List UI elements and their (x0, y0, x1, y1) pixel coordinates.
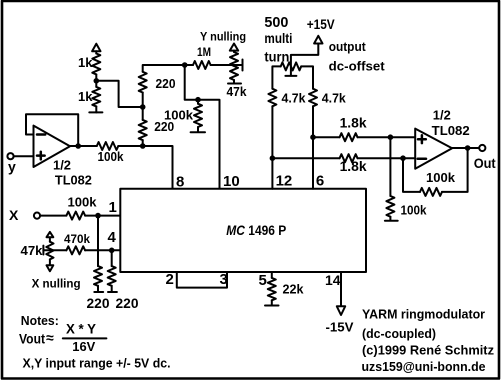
svg-text:1/2: 1/2 (433, 109, 451, 123)
resistor 1k (lower) (78, 87, 100, 107)
node U3 output / feedback (465, 145, 471, 151)
svg-text:100k: 100k (401, 204, 427, 218)
op-amp U3 1/2 TL082 (415, 109, 470, 169)
svg-text:1/2: 1/2 (53, 158, 71, 173)
svg-text:4.7k: 4.7k (322, 91, 347, 106)
svg-text:1k: 1k (78, 89, 93, 104)
label output dc-offset (329, 40, 386, 74)
svg-text:10: 10 (223, 173, 240, 190)
wire pot left to 4.7k (272, 66, 280, 88)
svg-text:2: 2 (166, 271, 174, 288)
credits text (362, 308, 495, 375)
trimmer 47k (X nulling) (46, 232, 53, 271)
ground (below 22k) (265, 300, 279, 305)
resistor 22k (268, 278, 304, 300)
svg-text:uzs159@uni-bonn.de: uzs159@uni-bonn.de (362, 360, 486, 374)
svg-text:1M: 1M (197, 45, 211, 59)
ground (below right 100k) (385, 217, 398, 221)
potentiometer 500 multiturn (281, 62, 302, 70)
wire pot right to 4.7k (301, 66, 313, 88)
label X nulling (32, 279, 81, 291)
op-amp U1 1/2 TL082 (34, 126, 92, 188)
wiper bar (500 pot) (285, 75, 296, 77)
-15V rail arrow (326, 306, 354, 334)
svg-text:470k: 470k (64, 232, 90, 246)
svg-text:100k: 100k (426, 170, 456, 185)
svg-text:47k: 47k (21, 243, 44, 258)
notes text (21, 314, 59, 328)
svg-text:output: output (329, 40, 367, 54)
resistor 1k (upper) (78, 54, 100, 75)
pin 14 label (325, 272, 341, 288)
wire 1.8k bottom to U3 - (358, 157, 416, 159)
wire top net (220 top to Y-nulling) (143, 65, 193, 72)
label X (9, 207, 19, 223)
node pin 12 / 1.8k bottom (270, 155, 276, 161)
svg-text:turn: turn (264, 49, 289, 64)
resistor 4.7k (right) (309, 89, 347, 107)
node pin1/220 (95, 213, 101, 219)
ground (below Y-nulling trimmer) (228, 80, 241, 84)
pin 10 label (223, 173, 240, 190)
node 220 bottom / output net (140, 143, 146, 149)
label 220 (right) (116, 296, 139, 311)
node pin 6 / 1.8k top (310, 134, 316, 140)
+15V rail arrow (pot) (314, 36, 322, 44)
resistor 220 (right, X) (108, 266, 116, 286)
output terminal Out (474, 145, 496, 171)
node 100k top (195, 97, 201, 103)
svg-text:TL082: TL082 (55, 173, 92, 188)
wire 1.8k top to U3 + (358, 136, 416, 138)
svg-text:(c)1999 René Schmitz: (c)1999 René Schmitz (362, 343, 494, 358)
svg-text:-15V: -15V (326, 320, 354, 335)
pin 2 label (166, 271, 174, 288)
label +15V (307, 17, 335, 32)
svg-text:16V: 16V (72, 339, 95, 354)
wire 1k junction to 220 junction (96, 74, 142, 107)
resistor 100k (to ground, middle) (164, 100, 202, 127)
ground (below middle 100k) (191, 127, 205, 132)
pin 12 label (276, 173, 293, 190)
svg-text:100k: 100k (68, 195, 98, 210)
svg-text:y: y (8, 159, 16, 175)
node + input / 100k gnd (388, 134, 394, 140)
wire top net down to pin 10 (185, 65, 220, 189)
wire U1 output (70, 145, 97, 147)
ground (below 1k) (89, 106, 102, 112)
node between 1k resistors (94, 78, 100, 84)
wire output net to pin 8 (118, 146, 172, 189)
wire pin 5 stub (271, 272, 273, 278)
label 500 multi turn (264, 14, 292, 65)
resistor 470k (64, 232, 90, 254)
svg-text:220: 220 (87, 296, 110, 311)
svg-text:MC 1496 P: MC 1496 P (226, 223, 286, 238)
resistor 100k (to ground, right) (386, 137, 426, 217)
svg-text:X * Y: X * Y (66, 321, 97, 337)
resistor 1.8k (top) (340, 116, 367, 142)
svg-text:100k: 100k (98, 150, 124, 164)
svg-text:22k: 22k (283, 283, 304, 297)
label 220 (left) (87, 296, 110, 311)
resistor 220 (lower) (139, 119, 175, 140)
svg-text:X nulling: X nulling (32, 279, 81, 291)
pin 4 label (108, 229, 117, 246)
ground (below left 220) (94, 286, 103, 292)
pin 8 label (176, 174, 184, 191)
svg-text:1k: 1k (78, 55, 93, 70)
input terminal Y (7, 153, 16, 174)
node - input / feedback (400, 155, 406, 161)
wire 1M to trimmer wiper (211, 60, 243, 71)
formula Vout (19, 321, 106, 354)
resistor 4.7k (left) (268, 89, 306, 107)
wire node to left 220 (97, 216, 99, 267)
svg-text:4.7k: 4.7k (282, 91, 307, 106)
resistor 100k (X input) (66, 195, 97, 220)
svg-text:1: 1 (109, 199, 117, 216)
IC U2 MC 1496 P (120, 189, 366, 272)
label Y nulling (200, 32, 246, 44)
svg-text:500: 500 (264, 14, 288, 31)
wire +15V to pot wiper (291, 44, 318, 75)
resistor 100k (U3 feedback) (420, 170, 456, 196)
svg-text:220: 220 (156, 76, 176, 91)
pin 3 label (220, 271, 228, 288)
node between 220 resistors (140, 93, 146, 120)
svg-text:dc-offset: dc-offset (329, 59, 386, 74)
svg-text:(dc-coupled): (dc-coupled) (362, 327, 436, 341)
svg-text:Y nulling: Y nulling (200, 32, 246, 44)
+15V rail arrow (top-left) (92, 44, 100, 54)
node 1M left (182, 62, 188, 68)
pin 5 label (259, 272, 267, 289)
wire 470k to pin 4 (85, 249, 120, 251)
svg-text:220: 220 (116, 296, 139, 311)
svg-text:1.8k: 1.8k (340, 159, 367, 174)
wire U3 feedback (403, 148, 468, 192)
svg-text:TL082: TL082 (432, 123, 470, 138)
svg-text:≈: ≈ (46, 330, 54, 346)
svg-text:14: 14 (325, 272, 341, 288)
wire X to pin 1 (40, 215, 120, 217)
svg-text:6: 6 (316, 173, 324, 190)
wire pin6 to 1.8k top (313, 136, 340, 138)
trimmer 47k (Y nulling) (227, 44, 247, 100)
pin 6 label (316, 173, 324, 190)
svg-text:4: 4 (108, 229, 117, 246)
wire pin 14 to -15V (340, 272, 342, 306)
label 47k (X nulling) (21, 243, 44, 258)
svg-text:Out: Out (474, 155, 496, 171)
svg-text:1.8k: 1.8k (340, 116, 367, 131)
wire Y to op-amp (14, 155, 34, 157)
wiper bar X nulling (43, 246, 66, 255)
svg-text:8: 8 (176, 174, 184, 191)
input terminal X (34, 213, 40, 219)
resistor 1.8k (bottom) (340, 154, 367, 174)
svg-text:X,Y input range +/- 5V dc.: X,Y input range +/- 5V dc. (23, 357, 171, 371)
svg-text:X: X (9, 207, 19, 223)
wire 4.7k left to pin 12 (271, 106, 273, 189)
svg-text:+15V: +15V (307, 17, 335, 32)
wire pin12 to 1.8k bottom (272, 157, 339, 159)
wire U3 output (452, 147, 479, 149)
svg-text:12: 12 (276, 173, 293, 190)
ground (below right 220) (108, 286, 117, 292)
resistor 100k (U1 output) (97, 142, 124, 164)
notes range line (23, 357, 171, 371)
svg-text:5: 5 (259, 272, 267, 289)
resistor 1M (193, 45, 211, 69)
wire U1 feedback loop (26, 114, 78, 146)
wire lower 220 to output net (142, 140, 144, 146)
wire node to right 220 (111, 250, 113, 266)
resistor 220 (left, X) (94, 266, 102, 286)
pin 1 label (109, 199, 117, 216)
resistor 220 (upper) (139, 72, 176, 93)
node U1 output (75, 143, 81, 149)
wire pins 2-3 loop (177, 272, 227, 288)
node pin4/220 (109, 248, 115, 254)
svg-text:Vout: Vout (19, 331, 45, 347)
svg-text:100k: 100k (164, 108, 194, 123)
svg-text:47k: 47k (227, 85, 247, 99)
wire 4.7k right to pin 6 (312, 106, 314, 189)
svg-text:multi: multi (264, 31, 292, 46)
svg-text:Notes:: Notes: (21, 314, 59, 328)
svg-text:YARM ringmodulator: YARM ringmodulator (362, 308, 485, 322)
